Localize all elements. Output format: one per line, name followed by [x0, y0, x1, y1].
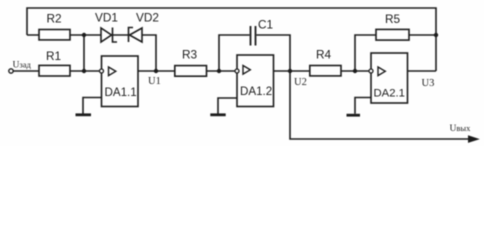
op-amp DA2.1: [371, 53, 408, 103]
wire between VD1 and VD2: [113, 34, 130, 36]
wire top feedback rail: [27, 8, 436, 71]
wire U2 to output rail: [290, 71, 470, 139]
ground under DA1.2: [218, 98, 237, 114]
zener diode VD2: [129, 28, 134, 43]
svg-text:VD2: VD2: [136, 11, 159, 25]
svg-text:VD1: VD1: [95, 11, 118, 25]
resistor R3: [175, 66, 207, 77]
node dot summing top: [82, 33, 86, 37]
svg-text:U1: U1: [148, 76, 161, 87]
ground under DA1.1: [83, 98, 102, 114]
svg-text:R1: R1: [46, 49, 61, 63]
node dot C1 tap: [217, 69, 221, 73]
resistor R2: [27, 34, 101, 36]
ground under DA2.1: [355, 98, 371, 114]
resistor R1: [13, 70, 100, 72]
node dot U2: [288, 69, 292, 73]
svg-text:Uзад: Uзад: [13, 60, 32, 71]
svg-text:R5: R5: [385, 12, 401, 26]
wire DA2.1 output: [408, 70, 437, 72]
resistor R5 feedback branch: [355, 35, 376, 71]
arrowhead output: [468, 135, 480, 143]
zener diode VD1: [101, 28, 112, 42]
wire summing node vertical: [83, 35, 85, 71]
svg-text:R3: R3: [182, 48, 198, 62]
svg-text:DA1.2: DA1.2: [240, 85, 272, 98]
node dot U1: [154, 69, 158, 73]
capacitor C1 feedback branch: [219, 35, 250, 71]
svg-text:C1: C1: [258, 18, 273, 32]
svg-text:DA1.1: DA1.1: [105, 86, 137, 99]
op-amp DA1.2: [237, 55, 274, 107]
wire DA1.2 output to R4: [274, 70, 311, 72]
node dot R5 to rail: [434, 33, 438, 37]
svg-text:Uвых: Uвых: [450, 123, 472, 134]
wire DA1.1 output: [138, 70, 175, 72]
svg-text:DA2.1: DA2.1: [374, 88, 405, 100]
svg-text:U2: U2: [294, 77, 307, 88]
node dot summing bottom: [82, 69, 86, 73]
svg-text:U3: U3: [422, 78, 435, 89]
svg-text:R4: R4: [316, 48, 332, 62]
terminal Uzad: [9, 69, 13, 73]
svg-text:R2: R2: [47, 12, 62, 26]
resistor R4: [310, 66, 341, 76]
wire diodes to U1 node: [142, 35, 156, 71]
node dot R5 tap: [353, 69, 357, 73]
op-amp DA1.1: [102, 56, 139, 107]
